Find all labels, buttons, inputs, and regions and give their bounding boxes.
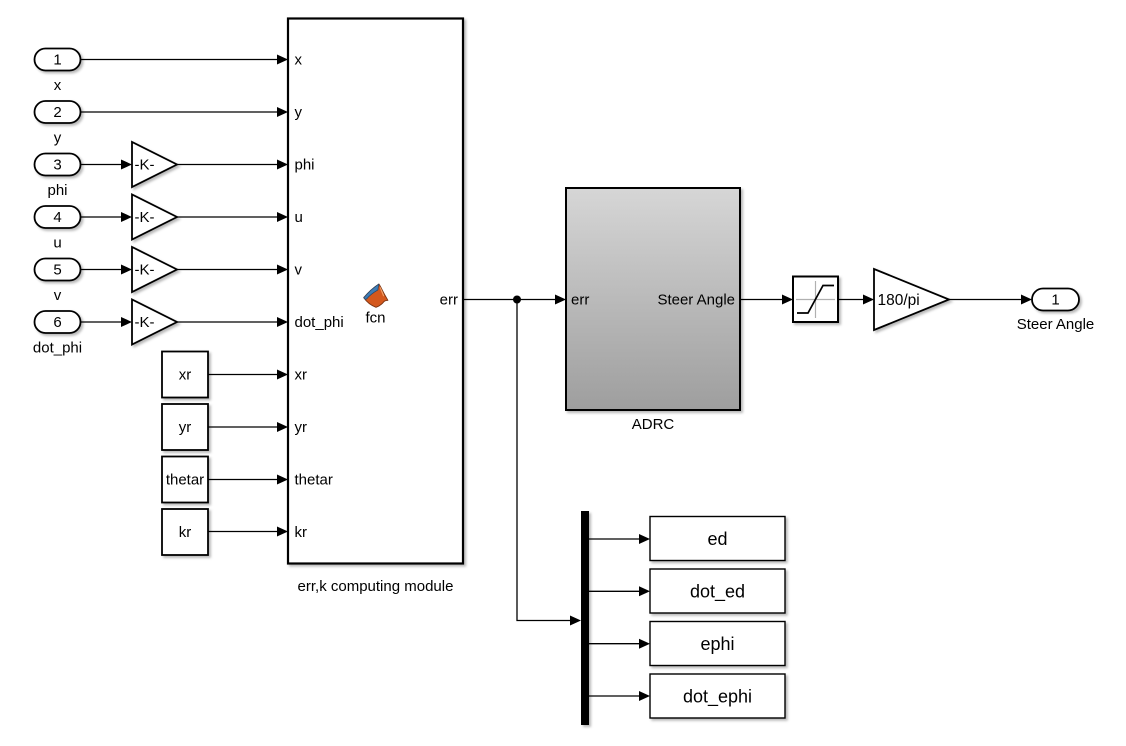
svg-text:yr: yr <box>295 419 308 436</box>
display box ed <box>650 517 785 561</box>
svg-text:1: 1 <box>1051 292 1059 309</box>
wire gain G1 to fcn block port phi <box>177 160 288 170</box>
MATLAB function block U1: err,k computing module <box>288 19 463 564</box>
svg-text:dot_ephi: dot_ephi <box>683 687 752 708</box>
svg-text:1: 1 <box>53 52 61 69</box>
inport 6 (dot_phi) <box>35 311 81 333</box>
svg-text:-K-: -K- <box>135 157 155 174</box>
svg-text:180/pi: 180/pi <box>878 292 920 309</box>
svg-text:xr: xr <box>295 367 308 384</box>
svg-text:Steer Angle: Steer Angle <box>1017 316 1095 333</box>
constant xr <box>162 352 208 398</box>
wire branch: junction down then right to demux <box>517 300 581 626</box>
inport 2 (y) <box>35 101 81 123</box>
wire constant kr to fcn block port kr <box>208 527 288 537</box>
svg-text:2: 2 <box>53 104 61 121</box>
wire ADRC output to saturation <box>740 295 793 305</box>
gain 180/pi <box>874 269 949 330</box>
wire demux to display dot_ephi <box>589 691 650 701</box>
wire gain G2 to fcn block port u <box>177 212 288 222</box>
junction node on err wire <box>513 296 521 304</box>
svg-text:-K-: -K- <box>135 314 155 331</box>
svg-text:v: v <box>54 287 62 304</box>
gain G2 -K- <box>132 195 177 240</box>
svg-text:err,k computing module: err,k computing module <box>298 578 454 595</box>
svg-text:6: 6 <box>53 314 61 331</box>
wire inport4 to gain G2 <box>81 212 133 222</box>
inport 3 (phi) <box>35 154 81 176</box>
svg-text:yr: yr <box>179 419 192 436</box>
svg-text:u: u <box>53 235 61 252</box>
subsystem ADRC <box>566 188 740 410</box>
gain G4 -K- <box>132 300 177 345</box>
svg-text:x: x <box>54 77 62 94</box>
svg-text:5: 5 <box>53 262 61 279</box>
MATLAB membrane logo icon <box>364 284 388 307</box>
wire inport3 to gain G1 <box>81 160 133 170</box>
wire inport6 to gain G4 <box>81 317 133 327</box>
svg-text:-K-: -K- <box>135 262 155 279</box>
wire saturation to gain 180/pi <box>838 295 874 305</box>
svg-text:x: x <box>295 52 303 69</box>
svg-text:4: 4 <box>53 209 61 226</box>
wire err output to ADRC input <box>463 295 566 305</box>
svg-text:Steer Angle: Steer Angle <box>657 292 735 309</box>
wire demux to display dot_ed <box>589 586 650 596</box>
svg-text:phi: phi <box>47 182 67 199</box>
wire inport2 to fcn block port y <box>81 107 289 117</box>
wire constant yr to fcn block port yr <box>208 422 288 432</box>
inport 4 (u) <box>35 206 81 228</box>
svg-text:ADRC: ADRC <box>632 416 675 433</box>
svg-text:err: err <box>440 292 458 309</box>
wire inport1 to fcn block port x <box>81 55 289 65</box>
svg-text:u: u <box>295 209 303 226</box>
svg-text:fcn: fcn <box>365 310 385 327</box>
svg-text:y: y <box>295 104 303 121</box>
saturation block <box>793 277 838 323</box>
wire gain G4 to fcn block port dot_phi <box>177 317 288 327</box>
svg-text:kr: kr <box>295 524 308 541</box>
svg-text:-K-: -K- <box>135 209 155 226</box>
constant yr <box>162 404 208 450</box>
svg-text:3: 3 <box>53 157 61 174</box>
svg-text:v: v <box>295 262 303 279</box>
wire demux to display ephi <box>589 639 650 649</box>
svg-text:phi: phi <box>295 157 315 174</box>
svg-text:dot_phi: dot_phi <box>33 340 82 357</box>
svg-text:thetar: thetar <box>166 472 204 489</box>
svg-text:kr: kr <box>179 524 192 541</box>
svg-text:thetar: thetar <box>295 472 333 489</box>
wire demux to display ed <box>589 534 650 544</box>
wire gain 180/pi to outport <box>949 295 1032 305</box>
gain G3 -K- <box>132 247 177 292</box>
wire inport5 to gain G3 <box>81 265 133 275</box>
svg-text:dot_ed: dot_ed <box>690 582 745 603</box>
display box dot_ephi <box>650 674 785 718</box>
svg-text:err: err <box>571 292 589 309</box>
outport 1 (Steer Angle) <box>1032 289 1079 311</box>
svg-text:ed: ed <box>707 529 727 549</box>
svg-text:ephi: ephi <box>700 634 734 654</box>
demux bar <box>581 511 589 725</box>
svg-text:y: y <box>54 130 62 147</box>
display box dot_ed <box>650 569 785 613</box>
wire gain G3 to fcn block port v <box>177 265 288 275</box>
svg-text:xr: xr <box>179 367 192 384</box>
inport 1 (x) <box>35 49 81 71</box>
wire constant thetar to fcn block port thetar <box>208 475 288 485</box>
constant kr <box>162 509 208 555</box>
constant thetar <box>162 457 208 503</box>
display box ephi <box>650 622 785 666</box>
wire constant xr to fcn block port xr <box>208 370 288 380</box>
svg-text:dot_phi: dot_phi <box>295 314 344 331</box>
inport 5 (v) <box>35 259 81 281</box>
gain G1 -K- <box>132 142 177 187</box>
